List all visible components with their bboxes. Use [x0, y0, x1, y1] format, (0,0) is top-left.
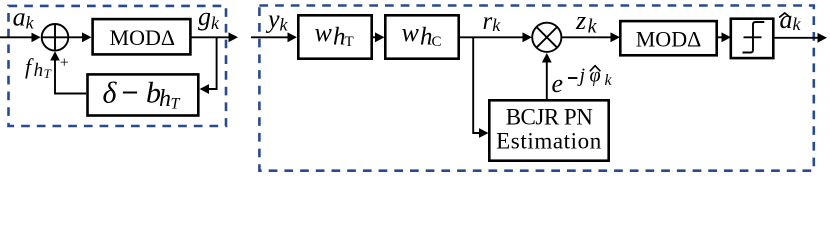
wire r_k from w_hC to multiplier [459, 32, 532, 42]
svg-text:T: T [345, 34, 354, 50]
node a_k label [13, 3, 35, 33]
wire a_hat_k output [773, 33, 827, 43]
node g_k label [198, 2, 220, 33]
svg-text:T: T [171, 96, 181, 113]
svg-text:BCJR PN: BCJR PN [506, 105, 594, 130]
block delta minus b_hT [88, 74, 199, 115]
right dashed subsystem box [259, 6, 813, 171]
node f_hT label [25, 54, 52, 81]
wire delta block back to adder [50, 51, 86, 93]
block BCJR PN Estimation [489, 100, 608, 160]
svg-text:h: h [159, 86, 171, 112]
svg-text:w: w [315, 18, 333, 47]
wire BCJR output up to multiplier [542, 53, 552, 99]
plus sign label at adder lower input [60, 55, 69, 72]
wire g_k output of left subsystem [190, 32, 238, 42]
wire MODA to slicer [717, 32, 731, 42]
node y_k label [265, 4, 289, 34]
svg-text:δ: δ [103, 77, 118, 110]
multiplier (circle with cross) [532, 23, 561, 52]
svg-text:Estimation: Estimation [496, 129, 602, 154]
svg-text:yk: yk [265, 4, 289, 34]
node e^-j phi_k label [552, 65, 613, 99]
wire tap down from r_k to BCJR block [473, 37, 488, 138]
node r_k label [483, 8, 502, 35]
wire adder to MODA block [68, 32, 91, 42]
left dashed subsystem box [9, 6, 227, 126]
svg-text:fhT: fhT [25, 54, 52, 81]
block MODA (left) [93, 19, 191, 54]
svg-text:MODΔ: MODΔ [636, 26, 701, 51]
wire y_k input to w_hT block [251, 32, 297, 42]
svg-text:+: + [60, 55, 69, 72]
svg-text:φ: φ [590, 65, 601, 87]
wire feedback tap down from g_k to delta block [200, 37, 217, 94]
svg-text:zk: zk [575, 6, 598, 38]
wire w_hT to w_hC [372, 32, 385, 42]
svg-text:e: e [552, 69, 564, 98]
block w_hT [298, 15, 371, 58]
svg-text:ak: ak [780, 5, 802, 34]
wire z_k from multiplier to MODA block [561, 32, 620, 42]
wire a_k input to adder [0, 33, 41, 43]
node a_hat_k label [779, 5, 801, 34]
adder (circle with plus) [42, 24, 69, 51]
svg-text:MODΔ: MODΔ [110, 25, 175, 50]
block slicer (hard limiter) [731, 19, 774, 58]
svg-text:k: k [605, 72, 613, 89]
block MODA (right) [620, 21, 716, 55]
node z_k label [575, 6, 598, 38]
svg-text:j: j [577, 65, 586, 87]
svg-text:C: C [432, 34, 442, 50]
svg-text:rk: rk [483, 8, 502, 35]
svg-text:w: w [402, 18, 420, 47]
block w_hC [385, 15, 458, 58]
